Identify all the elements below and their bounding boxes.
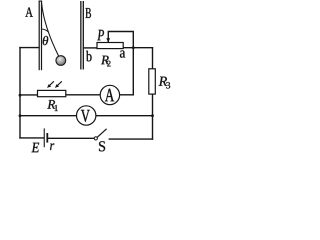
rheostat wiper arrow P: [106, 38, 110, 42]
wire: R1 to ammeter A: [66, 94, 101, 96]
wire: switch pivot to battery: [48, 137, 94, 139]
label b (left end of R2): [86, 51, 92, 62]
wire: voltmeter line right: [96, 115, 153, 117]
label P (wiper): [97, 30, 104, 40]
junction node a dot: [132, 46, 135, 49]
wire: top-left step to plate A: [20, 47, 39, 49]
angle arc: [42, 29, 49, 32]
junction dot on left branch at R1 line: [19, 94, 22, 97]
label theta: [43, 36, 48, 45]
junction dot on left branch at voltmeter line: [19, 114, 22, 117]
pendulum ball: [56, 56, 66, 66]
rheostat R2 box: [97, 43, 123, 49]
switch lever: [97, 129, 106, 138]
light arrow 1 on R1: [49, 81, 54, 85]
wire: node a down to ammeter: [120, 48, 134, 95]
wire: wiper jumper (up and over to node a): [108, 32, 133, 48]
wire: left branch vertical: [19, 48, 21, 138]
voltmeter V circle: [77, 106, 96, 125]
resistor R3 box: [149, 69, 156, 94]
plate B (right capacitor plate): [80, 1, 84, 70]
light arrow 2 on R1: [57, 81, 62, 85]
wire: rheostat R2 to node a and right branch: [123, 47, 152, 49]
resistor R1 box (photoresistor): [38, 90, 66, 96]
junction dot on right branch at voltmeter line: [151, 114, 154, 117]
voltmeter letter V: [81, 110, 90, 122]
battery short plate (-): [46, 133, 48, 143]
plate A (left capacitor plate): [39, 1, 43, 71]
battery long plate (+): [44, 128, 45, 147]
wire: R3 to bottom right corner: [152, 94, 154, 139]
wire: battery to bottom left corner: [20, 137, 44, 139]
label R3 - R: [159, 77, 167, 86]
wire: R1 line from left branch to ammeter: [20, 94, 38, 96]
label A (plate A): [25, 7, 32, 16]
ammeter A circle: [100, 85, 119, 104]
label S (switch): [99, 141, 105, 151]
label R3 - subscript 3: [166, 82, 170, 88]
wire: voltmeter line left: [20, 115, 77, 117]
label E (battery emf): [31, 143, 39, 152]
label B (plate B): [85, 8, 91, 18]
wire: right branch down to R3: [152, 48, 154, 69]
switch pivot: [94, 137, 97, 140]
label R2 - R: [101, 56, 109, 65]
wire: bottom right to switch contact: [109, 138, 152, 140]
wire: plate B to rheostat terminal b: [84, 47, 97, 49]
label r (internal resistance): [50, 143, 54, 150]
label R1 - subscript 1: [55, 105, 58, 111]
label R1 - R: [47, 100, 55, 109]
ammeter letter A: [105, 89, 114, 102]
pendulum string: [42, 3, 59, 57]
label R2 - subscript 2: [107, 61, 110, 67]
label a (right end of R2): [120, 50, 125, 57]
